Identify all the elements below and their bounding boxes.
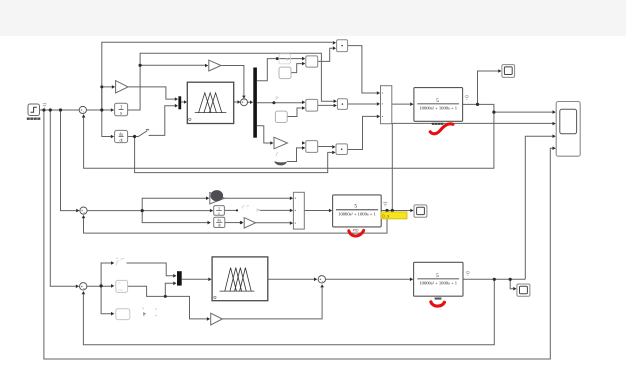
bottom gain triangle — [211, 313, 223, 325]
ghost2 faded block — [116, 280, 128, 292]
arrow into integrator1 — [111, 108, 114, 112]
mux4 black bar — [177, 271, 182, 285]
arrow into gainmid — [240, 221, 243, 225]
wire ghostB1 out to 2in1 in2 — [291, 64, 302, 73]
arrow into P2 in1 — [334, 99, 337, 103]
wire demux out1 up to switch row1 — [257, 59, 302, 81]
wire crescent out to 2in3 in2 — [287, 148, 302, 162]
mux1 black bar — [178, 96, 181, 109]
wire sum2 out to demux — [248, 101, 250, 103]
fuzzy controller 2 — [212, 257, 268, 301]
arrow into sum2 top — [242, 96, 246, 99]
arrow into 2in2 in1 — [302, 101, 305, 105]
svg-text:dt: dt — [218, 224, 221, 228]
2in block row2 — [306, 99, 318, 111]
arrow into P3 in2 — [332, 151, 335, 155]
arrow into fuzzy2 — [208, 278, 211, 282]
wire du/dt out to switch — [128, 136, 138, 138]
wire bottom gain out up into sum4 — [220, 287, 322, 319]
arrow into gain2 — [205, 64, 208, 68]
dark crescent scribble — [274, 161, 287, 165]
arrow into sum4 bottom — [320, 284, 324, 287]
arrow into dudt2 — [208, 221, 211, 225]
wire du/dt branch down to de distribution line to P3 — [135, 137, 333, 173]
arrow into integrator2 — [210, 209, 213, 213]
red squiggle under TF1 — [430, 124, 453, 134]
arrow into dudt1 — [111, 135, 114, 139]
svg-text:10000s² + 1000s + 1: 10000s² + 1000s + 1 — [419, 105, 457, 110]
sum4 — [318, 276, 325, 283]
ghost block B row2 — [275, 111, 287, 122]
ghost1 switch marks — [116, 258, 124, 265]
arrow into P1 in2 — [333, 46, 336, 50]
svg-text:s: s — [120, 112, 122, 117]
svg-text:PID: PID — [353, 229, 359, 233]
arrow into mux4 in2 — [173, 282, 176, 286]
node TF3 scope branch — [509, 278, 512, 281]
wire TF3 to scope4 — [510, 279, 513, 288]
svg-text:5: 5 — [436, 98, 439, 104]
2in block row1 — [306, 56, 318, 67]
arrow into mux4 in1 — [173, 274, 176, 278]
arrow into mux3 in3 — [290, 221, 293, 225]
wire demux out2 to switch row2 — [257, 102, 302, 104]
gain2 triangle — [209, 60, 221, 71]
TF2 transfer function — [333, 195, 382, 227]
arrow into mux2 in2 — [377, 102, 380, 106]
node sum5 branch — [100, 284, 103, 287]
gain mid triangle — [244, 218, 255, 229]
arrow into bottomgain — [207, 317, 210, 321]
sum3 — [80, 207, 87, 214]
TF1 transfer function — [414, 88, 463, 122]
wire TF3 feedback bottom loop — [83, 279, 494, 345]
wire TF2 feedback down and left to sum3 — [84, 211, 388, 234]
wire step branch to bottom sum — [50, 110, 76, 286]
wire row3 to ghost3 — [101, 286, 111, 314]
wire sum3 out to integrator2 — [87, 210, 210, 212]
svg-text:5: 5 — [436, 273, 439, 279]
ghost block A row1 — [279, 54, 291, 64]
wire branch up into mux4 in2 — [165, 283, 173, 296]
sum5 bottom left — [80, 283, 87, 290]
sum2 — [241, 99, 248, 106]
wire fuzzy2 out to sum4 — [268, 278, 314, 280]
arrow into demux — [250, 100, 253, 104]
manual switch glyph after dudt1 — [138, 129, 151, 136]
node sum3 branch — [141, 209, 144, 212]
svg-text:5: 5 — [354, 204, 357, 210]
node TF1 scope in1 branch — [492, 111, 495, 114]
wire 2in1 out to product P1 in2 — [318, 48, 333, 61]
wire e-signal up and across top to product P1 — [102, 42, 333, 110]
wire branch to du/dt2 — [142, 211, 207, 223]
arrow into big scope in2 — [553, 122, 556, 126]
wire mux4 out to fuzzy2 — [182, 278, 209, 280]
arrow into sum5 bottom — [82, 291, 86, 294]
node gain branch bottom — [164, 295, 167, 298]
node TF3 feedback branch — [493, 278, 496, 281]
ghost block B row1 — [279, 67, 291, 79]
scope1 small — [502, 65, 515, 78]
ghost3 faded block — [116, 309, 130, 320]
arrow into mux2 in1 — [377, 91, 380, 95]
red smile arc under TF3 — [431, 302, 445, 306]
node e gain branch — [100, 85, 103, 88]
arrow into gain1 — [112, 85, 115, 89]
wire 2in2 out to product P2 in2 — [318, 104, 334, 106]
arrow into 2in3 in2 — [302, 146, 305, 150]
wire step branch to middle sum — [61, 110, 77, 211]
wifi badge near TF1 — [465, 96, 469, 100]
node step branch 1 — [42, 108, 45, 111]
wire TF1 out to corner — [84, 104, 494, 168]
svg-text:10000s² + 1000s + 1: 10000s² + 1000s + 1 — [338, 211, 376, 216]
wire P2 out to mux2 in2 — [348, 103, 377, 105]
arrow into mux3 in2 — [290, 209, 293, 213]
svg-text:0..s: 0..s — [382, 213, 390, 218]
mux3 rect — [293, 192, 304, 229]
arrow into scope1 — [498, 69, 501, 73]
mux2 rect — [381, 86, 392, 124]
svg-text:du: du — [217, 219, 221, 223]
arrow into sum3 bottom — [82, 215, 86, 218]
arrow into mux1 in1 — [175, 97, 178, 101]
wire TF1 to big scope in1 — [494, 111, 553, 113]
wire P1 out to mux2 in1 — [348, 46, 377, 93]
arrow into 2in1 in1 — [302, 57, 305, 61]
wire gain2 out down into sum2 — [221, 66, 244, 96]
fuzzy controller 1 — [187, 82, 233, 123]
blob gain triangle — [210, 193, 225, 204]
wire ghost1 out to mux4 in1 — [127, 263, 174, 276]
arrow into TF1 — [410, 102, 413, 106]
arrow into 2in2 in2 — [302, 106, 305, 110]
node TF1 scope branch — [476, 103, 479, 106]
wire mux1 out to fuzzy1 — [181, 101, 184, 103]
arrow into P2 in2 — [334, 104, 337, 108]
wire TF1 branch up to scope1 — [478, 71, 499, 104]
derivative2 du/dt — [214, 217, 225, 227]
wire gainmid out to mux3 in3 — [256, 222, 290, 224]
red check arc under TF2 — [349, 230, 364, 236]
arrow into scope4 — [513, 287, 516, 291]
arrow into sum4 left — [314, 278, 317, 282]
wire integrator out up to distribution — [128, 53, 334, 110]
product P2 — [337, 99, 347, 110]
node demux row1 — [276, 57, 279, 60]
ghost f mark row3 — [276, 153, 278, 156]
arrow into 2in3 in1 — [302, 141, 305, 145]
wire ghost resumed segment to mux3 in2 — [260, 209, 290, 211]
wire TF3 out up to big scope in3 — [525, 136, 552, 279]
arrow into TF2 — [329, 209, 332, 213]
smudge text under TF3 — [435, 298, 442, 300]
arrow into mux3 in1 — [290, 196, 293, 200]
dark blob scribble over gain — [211, 190, 224, 201]
wire integrator2 out segment — [224, 209, 236, 211]
arrow into sum1 — [79, 108, 82, 112]
wire TF2 out to scope3 — [381, 210, 410, 212]
arrow into fuzzy1 — [184, 100, 187, 104]
wifi badge near TF2 — [383, 202, 387, 206]
wire blobgain out to mux3 in1 — [225, 197, 290, 199]
wire ghost2 out down to lower run — [128, 286, 207, 319]
derivative1 du/dt — [115, 130, 128, 142]
big scope — [556, 102, 580, 157]
wire TF2 out up to big scope in2 — [392, 123, 552, 210]
wire gain1 out to mux1 in1 — [128, 87, 175, 99]
TF3 transfer function — [414, 262, 463, 296]
wifi badge near step — [43, 103, 47, 107]
node dudt branch — [133, 135, 136, 138]
arrow into P1 in1 — [333, 41, 336, 45]
arrow into big scope in3 — [553, 134, 556, 138]
wire ghostB2 out to 2in2 in2 — [287, 108, 302, 117]
wire branch to blob gain — [142, 198, 206, 210]
scope4 small — [517, 284, 530, 296]
arrow into ghost3 — [111, 312, 114, 316]
step source block — [28, 104, 40, 116]
arrow into sum5 left — [76, 285, 79, 289]
arrow into gain3 — [270, 141, 273, 145]
wire TF3 out junctions — [463, 278, 525, 280]
svg-text:10000s² + 1000s + 1: 10000s² + 1000s + 1 — [419, 280, 457, 285]
sum1 — [79, 106, 86, 113]
arrow into P3 in1 — [332, 145, 335, 149]
arrow into ghost2 — [111, 284, 114, 288]
wire sum1 out to integrator — [86, 109, 110, 111]
node TF2 scope branch — [391, 209, 394, 212]
gain3 triangle — [274, 137, 287, 149]
wire du/dt2 out to gain mid — [225, 222, 240, 224]
wire mux2 out to TF1 — [392, 103, 410, 105]
arrow into sum1 bottom — [82, 114, 86, 117]
arrow into ghost1 — [111, 261, 114, 265]
node erased block stub — [236, 209, 238, 211]
wire sum5 out to ghost2 — [87, 285, 111, 287]
arrow into scope3 — [410, 209, 413, 213]
2in block row3 — [306, 141, 318, 153]
product P1 — [337, 40, 348, 52]
wire mux3 out to TF2 — [304, 210, 329, 212]
wire row1 to ghost1 — [101, 263, 111, 286]
integrator1 1/s — [115, 103, 128, 116]
ghost marks right of ghost3 — [143, 308, 157, 317]
integrator2 1/s — [214, 206, 225, 216]
wire sum4 out to TF3 — [325, 278, 410, 280]
node step branch 3 — [59, 108, 62, 111]
arrow into big scope in4 — [553, 146, 556, 150]
wire step output to sum1 — [40, 109, 80, 111]
node demux row2 — [272, 101, 275, 104]
step label text smudge — [27, 118, 41, 120]
demux black bar — [253, 68, 257, 138]
arrow into sum2 left — [238, 100, 241, 104]
node integrator branch — [139, 64, 142, 67]
arrow into mux2 in3 — [377, 115, 380, 119]
arrow into blobgain — [206, 196, 209, 200]
wire P3 out to mux2 in3 — [347, 116, 376, 149]
arrow into TF3 — [410, 278, 413, 282]
wire step branch down to outer feedback loop bottom — [44, 110, 553, 359]
ghost switch row2 — [275, 97, 278, 100]
wire 2in3 out to product P3 in1 — [318, 146, 333, 148]
top toolbar strip — [0, 0, 626, 36]
node step branch 2 — [49, 108, 52, 111]
wire switch out to mux1 in2 — [151, 106, 175, 136]
scope3 small — [414, 205, 427, 217]
smudge text above squiggle — [432, 123, 444, 125]
arrow into sum3 left — [76, 209, 79, 213]
node e branch — [100, 108, 103, 111]
arrow into big scope in1 — [553, 110, 556, 114]
wire integrator branch to gain2 — [140, 64, 205, 66]
product P3 — [336, 144, 347, 155]
node gainmid input — [240, 221, 243, 224]
wire e branch to gain1 — [102, 87, 112, 110]
ghost switch and gt marks middle row — [256, 209, 259, 211]
wifi badge near TF3 — [466, 272, 470, 276]
arrow into 2in1 in2 — [302, 62, 305, 66]
wire e branch down to derivative du/dt — [102, 110, 111, 137]
node TF2 feedback branch — [385, 209, 388, 212]
yellow highlight box — [381, 212, 407, 219]
wire fuzzy1 out to sum2 — [234, 101, 238, 103]
wire demux out3 down to gain3 — [257, 126, 270, 143]
gain1 triangle — [116, 81, 128, 93]
arrow into mux1 in2 — [175, 104, 178, 108]
